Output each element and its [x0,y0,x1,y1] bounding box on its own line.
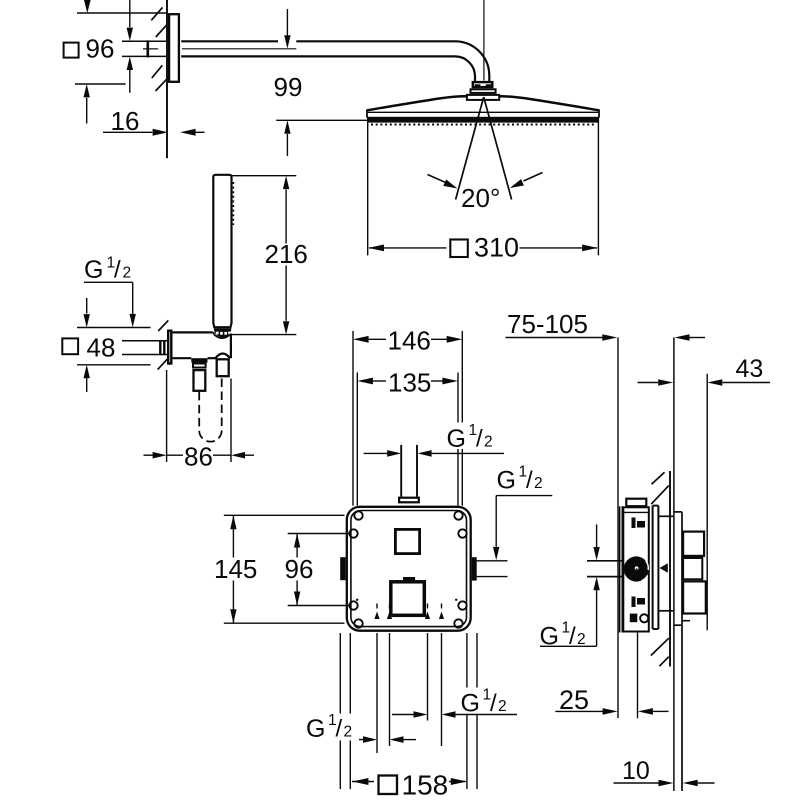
svg-text:96: 96 [285,554,314,584]
dimension G 1/2 bottom right [392,711,517,718]
svg-text:135: 135 [388,367,431,397]
bottom pin marks [374,604,444,620]
label 216 [265,239,308,269]
dimension square-158 [352,778,467,785]
label 25 [559,685,589,715]
right tab extension lines [477,561,508,577]
dimension 145 [224,515,345,623]
svg-text:20: 20 [461,183,490,213]
top supply pipe [399,445,419,502]
lower square opening [391,577,425,615]
G 1/2 leader (hand shower) [84,282,136,327]
side view: valve internals upper [632,518,646,529]
shower arm horizontal pipe [181,41,455,56]
dimension square-96 extension lines and arrows [75,0,166,124]
bottom pin extension lines [377,633,442,753]
svg-text:2: 2 [123,265,132,282]
20 degree right arrow [510,173,543,189]
dimension square-310 [368,118,599,256]
svg-text:25: 25 [559,685,589,715]
label 43 [736,355,764,383]
dimension 16 [103,129,205,136]
dimension G 1/2 top pipe [364,450,504,457]
dimension 216 [232,176,297,335]
wall flange escutcheon (square 96) [169,14,179,82]
G 1/2 leader (right tab) [493,496,552,561]
holder wall ticks [158,320,169,369]
label square-310 [450,233,519,263]
label G 1/2 hand shower [84,255,131,285]
label 135 [388,367,431,397]
svg-text:86: 86 [184,441,213,471]
label 86 [183,441,213,471]
head connector neck [467,95,499,100]
dimension 135 [357,373,458,506]
svg-text:16: 16 [111,106,140,136]
label 146 [388,326,431,356]
label 99 [274,72,303,102]
svg-text:/: / [476,426,483,453]
label square-48 [62,333,115,363]
svg-text:96: 96 [86,33,115,63]
label 16 [111,106,140,136]
side view: trim plate [620,506,623,632]
20 degree left arrow [428,175,458,189]
side view: cartridge circle [624,556,649,581]
label 96 screws [284,554,314,584]
label 20 deg [461,183,500,213]
svg-text:75-105: 75-105 [507,309,588,339]
svg-text:G: G [540,623,559,651]
dimension square-48 [77,298,151,392]
upper square opening [395,529,419,553]
label G 1/2 bottom right [458,687,512,718]
svg-text:G: G [497,466,516,494]
svg-text:10: 10 [622,757,650,785]
20 degree angle lines [456,97,512,200]
label G 1/2 right tab [497,464,543,495]
label square-96 [64,33,115,63]
side view: valve body [622,499,650,632]
head centerline axis [483,0,485,81]
side view: supply stub lines [587,561,668,577]
svg-text:G: G [447,425,466,453]
svg-text:2: 2 [534,475,543,492]
holder hose inlet right [216,354,231,377]
side view: rear stepped block [682,532,706,621]
dimension G 1/2 side stub [540,524,600,646]
svg-text:2: 2 [577,631,586,648]
box lower extension lines [340,633,477,789]
shower head body [367,96,599,124]
svg-text:G: G [461,689,480,717]
svg-text:48: 48 [87,333,116,363]
supply stub through wall (top-left) [122,40,167,57]
label G 1/2 side view [540,620,586,651]
svg-text:2: 2 [344,724,353,741]
svg-text:/: / [114,257,121,284]
svg-text:/: / [490,690,497,717]
svg-text:158: 158 [402,770,449,800]
left outlet tab [340,557,345,580]
svg-text:/: / [569,623,576,650]
side view: wall surface line [669,471,671,667]
svg-text:2: 2 [498,698,507,715]
side view: wall hatch bottom [651,638,669,666]
side view: wall hatch top [651,472,669,504]
hand shower handle [213,175,233,338]
label 10 [622,757,650,785]
dimension 75-105 [505,334,705,341]
dimension 99 [276,9,367,156]
label G 1/2 bottom left [303,712,359,743]
svg-text:146: 146 [388,326,431,356]
svg-text:/: / [336,716,343,743]
dimension 10 [614,780,715,787]
svg-text:310: 310 [474,233,519,263]
side view: bottom screw and block [630,614,649,623]
label 75-105 [507,309,588,339]
side view: trim face extension line [617,338,619,719]
holder wall plate [168,331,171,364]
dimension 25 [555,633,668,719]
dimension 43 [638,374,771,631]
dimension 146 [353,331,462,506]
holder body [173,332,231,358]
side view: valve internals lower [632,597,646,608]
trim plate inner outline [351,511,467,627]
svg-text:2: 2 [484,434,493,451]
shower hose (dashed U) [199,378,222,442]
head connector mid flange [471,89,496,93]
side view: in-wall housing [674,512,682,791]
svg-text:43: 43 [736,355,764,383]
right outlet tab [472,557,477,580]
svg-text:216: 216 [265,239,308,269]
svg-text:99: 99 [274,72,303,102]
holder supply stub [122,340,167,355]
dimension 86 [144,370,255,462]
box screws [349,511,466,627]
wall line (top-left mount, side wall) [166,0,168,158]
dimension G 1/2 bottom left [307,736,417,743]
wall hatch ticks (top-left) [151,7,168,91]
dimension 96 (screws) [288,534,349,606]
side view: wall plane line [673,338,675,792]
side view: mounting plate [653,506,674,629]
shower arm bend [455,41,489,81]
rough-in box outer [347,507,471,631]
svg-text:145: 145 [214,554,257,584]
label G 1/2 top pipe [445,422,495,453]
head connector nut [473,82,493,87]
label 145 [213,554,257,584]
svg-text:/: / [526,467,533,494]
svg-text:°: ° [490,183,500,213]
svg-text:G: G [84,256,103,284]
label square-158 [379,770,449,800]
svg-text:G: G [306,715,325,743]
holder hose outlet left [191,358,207,391]
